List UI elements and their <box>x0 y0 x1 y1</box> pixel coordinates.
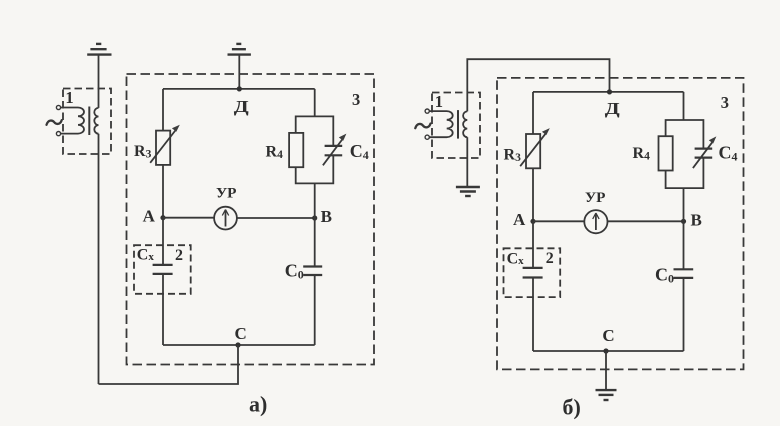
svg-text:A: A <box>513 210 526 229</box>
transformer core <box>457 110 459 139</box>
node Д <box>607 89 612 94</box>
svg-text:C4: C4 <box>719 143 738 164</box>
svg-text:Д: Д <box>605 99 620 118</box>
wire: right branch from top rail down to parallel block <box>314 89 316 117</box>
svg-text:Д: Д <box>234 97 249 116</box>
wire: C0 to bottom rail <box>683 278 685 351</box>
resistor R3 (adjustable) <box>150 125 180 165</box>
capacitor C4 (variable) <box>693 136 717 168</box>
ground (below node C) <box>596 390 617 400</box>
terminal (top) <box>425 109 429 113</box>
capacitor C0 <box>674 269 694 278</box>
svg-text:УР: УР <box>216 186 237 202</box>
resistor R4 <box>289 133 303 167</box>
wire: A to УР <box>533 220 585 222</box>
wire: parallel block frame (rails) <box>666 120 704 188</box>
node A <box>160 215 165 220</box>
svg-text:б): б) <box>563 395 581 420</box>
transformer secondary winding <box>94 108 98 134</box>
svg-text:1: 1 <box>435 92 443 111</box>
wire: node C to ground <box>605 351 607 390</box>
node Д <box>237 86 242 91</box>
svg-text:C0: C0 <box>655 265 674 286</box>
wire: R3 to node A <box>532 168 534 221</box>
ground (top left, above transformer) <box>87 44 111 55</box>
transformer primary winding <box>429 111 453 137</box>
wire: УР to B <box>607 220 683 222</box>
svg-text:A: A <box>143 206 156 225</box>
wire: parallel block to node B <box>683 188 685 221</box>
wire: node B down to C0 <box>683 221 685 269</box>
wire: ground to node Д <box>238 55 240 89</box>
svg-text:1: 1 <box>65 88 73 107</box>
wire: left branch from top rail to R3 <box>162 89 164 131</box>
node B <box>312 215 317 220</box>
svg-text:C: C <box>235 324 247 343</box>
shield box 3 (dashed) <box>127 74 375 365</box>
shield box 2 around Cx (dashed) <box>504 248 561 297</box>
svg-text:2: 2 <box>546 250 554 267</box>
null indicator УР <box>214 207 237 230</box>
ground (above node Д) <box>228 44 251 55</box>
wire: top rail of bridge <box>163 88 315 90</box>
svg-text:Cx: Cx <box>137 247 155 264</box>
svg-text:2: 2 <box>175 247 183 264</box>
shield box 3 (dashed) <box>497 78 744 370</box>
capacitor Cx <box>153 265 173 274</box>
transformer secondary winding <box>463 111 467 137</box>
node C <box>603 348 608 353</box>
wire: УР to B <box>237 217 315 219</box>
svg-text:B: B <box>691 211 702 230</box>
terminal (bottom) <box>425 135 429 139</box>
wire: bottom rail <box>533 350 684 352</box>
transformer 1: shield box (dashed) <box>432 93 480 159</box>
svg-text:Cx: Cx <box>507 250 525 267</box>
svg-text:C4: C4 <box>350 141 369 162</box>
svg-text:R3: R3 <box>134 143 152 161</box>
wire: parallel block to node B <box>314 183 316 218</box>
wire: node B down to C0 <box>314 218 316 267</box>
svg-text:B: B <box>321 207 332 226</box>
svg-text:а): а) <box>249 392 267 417</box>
transformer core <box>88 107 90 136</box>
wire: Cx to bottom rail <box>162 274 164 345</box>
wire: bottom rail <box>163 344 315 346</box>
node C <box>235 342 240 347</box>
wire: node A down to Cx <box>162 218 164 265</box>
ground (below transformer) <box>456 187 480 196</box>
wire: secondary bottom down to ground <box>466 137 468 187</box>
transformer 1: shield box (dashed) <box>63 89 111 155</box>
node A <box>530 219 535 224</box>
resistor R3 (adjustable) <box>520 128 550 168</box>
wire: left branch from top rail to R3 <box>532 92 534 134</box>
wire: ground down through secondary winding, to bottom return <box>98 55 100 384</box>
wire: node A down to Cx <box>532 221 534 268</box>
svg-text:3: 3 <box>721 93 729 112</box>
AC source symbol ~ <box>415 124 430 129</box>
wire: Cx to bottom rail <box>532 278 534 352</box>
wire: C0 to bottom rail <box>314 275 316 345</box>
svg-text:C0: C0 <box>285 261 304 282</box>
transformer primary winding <box>61 108 85 134</box>
node B <box>681 219 686 224</box>
svg-text:C: C <box>602 326 614 345</box>
AC source symbol ~ <box>47 120 62 125</box>
wire: parallel block frame (rails) <box>296 116 334 183</box>
shield box 2 around Cx (dashed) <box>134 245 191 294</box>
null indicator УР <box>584 210 607 233</box>
terminal (bottom) <box>56 132 60 136</box>
svg-text:R4: R4 <box>266 144 284 162</box>
svg-text:УР: УР <box>585 190 606 206</box>
svg-text:3: 3 <box>352 90 360 109</box>
capacitor Cx <box>523 268 543 278</box>
resistor R4 <box>659 136 673 170</box>
wire: top rail of bridge <box>533 91 684 93</box>
terminal (top) <box>56 105 60 109</box>
wire: node C down and return to transformer <box>99 345 239 384</box>
wire: secondary top up, over to node Д <box>467 59 609 111</box>
wire: A to УР <box>163 217 214 219</box>
wire: R3 to node A <box>162 165 164 218</box>
svg-text:R3: R3 <box>504 147 522 165</box>
capacitor C4 (variable) <box>323 134 347 166</box>
capacitor C0 <box>303 267 322 276</box>
wire: right branch from top rail down to parallel block <box>683 92 685 120</box>
svg-text:R4: R4 <box>633 145 651 163</box>
